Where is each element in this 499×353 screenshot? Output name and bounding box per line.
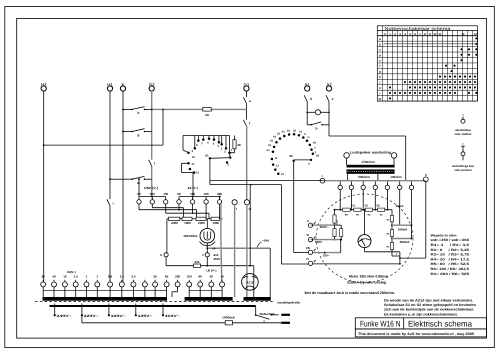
wire bus anode — [152, 108, 247, 110]
label meter spec line1 — [349, 275, 388, 279]
wire mid link 1 — [152, 207, 183, 219]
terminal I speaker — [320, 174, 325, 183]
terminal 230 — [172, 274, 180, 297]
svg-text:R2= 6 / R2= 5,25: R2= 6 / R2= 5,25 — [431, 248, 470, 252]
svg-text:10: 10 — [364, 204, 368, 208]
capacitor 8uF 450V — [202, 253, 220, 266]
wire bar tap left — [347, 174, 349, 181]
svg-text:S2: S2 — [293, 130, 297, 133]
wire H1 vertical upper — [109, 91, 111, 199]
speaker terminal left — [344, 153, 350, 165]
separator dashed — [35, 301, 274, 303]
fuse 2A — [203, 108, 211, 117]
label 250V~ — [320, 225, 329, 229]
svg-text:VI: VI — [306, 233, 309, 237]
wire S1 wiper down — [209, 158, 211, 180]
svg-text:150: 150 — [163, 192, 168, 196]
label 10V~ — [322, 253, 329, 257]
rotary switch S1 — [182, 136, 234, 175]
terminal G1 — [243, 82, 249, 91]
label aansluitbus — [454, 128, 472, 136]
svg-text:b: b — [315, 127, 317, 131]
wire 500V — [311, 239, 342, 241]
nokkenschakelaar schema table — [377, 26, 477, 101]
mains terminal pin 1 — [281, 314, 290, 316]
switch l (nok contact l) — [149, 160, 156, 166]
wire common bottom — [313, 263, 400, 265]
terminal I — [232, 200, 237, 212]
table contact dots — [384, 37, 478, 99]
wire G1 switch a to bus — [245, 103, 247, 109]
rotary switch S2 — [266, 130, 319, 176]
svg-text:1.5: 1.5 — [74, 274, 79, 278]
svg-text:S2: S2 — [289, 154, 293, 158]
svg-text:l: l — [154, 162, 155, 166]
switch i (nok contact i) — [107, 199, 114, 206]
svg-text:110V~: 110V~ — [165, 314, 180, 318]
wire G2 vertical lower — [151, 166, 153, 198]
meter movement — [358, 235, 371, 248]
speaker terminal right — [391, 153, 397, 165]
wire mid link 3 — [166, 207, 209, 219]
junction H1-m — [109, 178, 123, 180]
terminal G2 — [149, 82, 155, 91]
label 100ohm — [390, 175, 402, 179]
svg-text:240V~: 240V~ — [57, 314, 72, 318]
svg-text:12: 12 — [196, 172, 199, 175]
wire plus node — [392, 252, 401, 265]
label 250mA — [400, 240, 411, 244]
wire G2 vertical upper — [151, 91, 153, 160]
wire meter bottom — [365, 248, 400, 252]
label 0MV — [257, 239, 270, 248]
svg-text:11: 11 — [439, 32, 442, 36]
mains terminal pin 2 — [281, 322, 290, 324]
mains switch — [255, 306, 279, 323]
switch m (nok contact m) — [123, 176, 152, 184]
svg-text:d: d — [310, 97, 312, 101]
wire middle terminal bus — [139, 196, 221, 198]
svg-text:U52 (V-): U52 (V-) — [144, 186, 158, 190]
label 500V — [315, 240, 322, 244]
voltage taps — [54, 304, 180, 319]
svg-text:125V~: 125V~ — [138, 314, 153, 318]
switch b (nok contact b) — [307, 122, 329, 131]
label voedingstrafo — [277, 301, 300, 305]
wire terminal II drop — [400, 182, 426, 258]
svg-text:A1: A1 — [299, 131, 303, 134]
wire 300V down — [220, 204, 223, 282]
label 1700ohm — [361, 160, 375, 164]
svg-text:II: II — [307, 219, 309, 223]
svg-text:3.5: 3.5 — [120, 274, 125, 278]
wire AZ12 plate — [249, 185, 251, 267]
wire A2 to speaker box — [329, 136, 406, 181]
svg-text:Nokkenschakelaar schema: Nokkenschakelaar schema — [385, 26, 452, 31]
svg-text:500ohm: 500ohm — [358, 175, 370, 179]
svg-text:2900: 2900 — [171, 221, 178, 225]
svg-text:100: 100 — [187, 274, 192, 278]
resistor 1700ohm bar — [347, 165, 395, 167]
busbar middle — [185, 297, 233, 301]
svg-text:h: h — [379, 75, 381, 79]
wire H1 vertical lower — [109, 206, 111, 282]
svg-text:100: 100 — [190, 192, 195, 196]
wire 100mA — [392, 224, 412, 226]
wire anode 0MV — [207, 248, 270, 297]
terminal A1 — [305, 82, 311, 91]
aansluitbus symbol — [461, 113, 465, 123]
speaker bus — [323, 180, 426, 182]
meter terminal VI — [306, 233, 315, 242]
svg-text:De kontakten a..m zijn nokkens: De kontakten a..m zijn nokkenschakelaars… — [384, 312, 458, 316]
label meter spec line2 — [347, 280, 386, 284]
wire drop to H2 link — [162, 109, 164, 145]
wire 250mA — [392, 238, 412, 240]
svg-text:R1= 4 / R1= 3,5: R1= 4 / R1= 3,5 — [431, 243, 470, 247]
wire G1 to switch a — [245, 91, 247, 97]
wire 250mA stub — [411, 190, 413, 239]
svg-text:A2: A2 — [273, 136, 277, 139]
meter assembly boundary — [316, 194, 413, 283]
svg-text:voor pennen: voor pennen — [454, 168, 472, 172]
junction K-g — [122, 131, 124, 133]
svg-text:g: g — [137, 133, 139, 137]
svg-text:10V~: 10V~ — [322, 253, 329, 257]
label Netschak — [260, 312, 276, 316]
meter terminal IV — [306, 257, 315, 266]
terminal A2 — [326, 82, 332, 91]
svg-text:26: 26 — [153, 274, 157, 278]
svg-text:2500: 2500 — [336, 219, 339, 225]
wire S1 contact12 down — [192, 173, 195, 198]
wire terminal IX down — [246, 205, 248, 297]
fuse 1000mA — [222, 316, 281, 325]
wire tube anode — [206, 219, 208, 229]
svg-text:220V~: 220V~ — [84, 314, 99, 318]
svg-text:1900: 1900 — [184, 221, 191, 225]
svg-text:40: 40 — [52, 274, 56, 278]
svg-text:Schakelaar S1 en S2 zitten gek: Schakelaar S1 en S2 zitten gekoppeld en … — [384, 303, 476, 307]
voltage multiplier resistors — [333, 209, 343, 241]
lamp between A1 A2 — [306, 110, 329, 115]
svg-text:12: 12 — [474, 32, 478, 36]
switch d (nok contact d) — [304, 95, 312, 101]
svg-text:Luidspreker aansluiting: Luidspreker aansluiting — [350, 150, 391, 154]
speaker tap terminals — [338, 181, 414, 189]
svg-text:U6 (V~): U6 (V~) — [206, 269, 216, 273]
svg-text:A1: A1 — [268, 144, 272, 147]
svg-text:A3: A3 — [281, 131, 285, 134]
svg-text:IV: IV — [306, 257, 309, 261]
svg-text:b: b — [379, 42, 381, 46]
svg-text:V: V — [202, 253, 204, 257]
terminal H2 — [41, 82, 47, 91]
wire link to H2 — [44, 144, 163, 146]
mains bus thick — [50, 305, 256, 307]
resistors 2900 1900 2300 1950 — [167, 217, 223, 225]
svg-text:Waarde in ohm: Waarde in ohm — [431, 233, 457, 237]
shunt resistors R3 R2 R1 — [387, 210, 394, 256]
svg-text:De anode van de AZ12 zijn met: De anode van de AZ12 zijn met elkaar ver… — [384, 298, 473, 302]
svg-text:1700ohm: 1700ohm — [361, 160, 375, 164]
svg-text:500V: 500V — [315, 240, 322, 244]
switch h (nok contact h) — [123, 107, 152, 115]
label verbindingsbus — [452, 164, 475, 172]
switch g (nok contact g) — [123, 129, 152, 137]
wire link down right — [281, 185, 308, 264]
wire 100mA stub — [399, 190, 401, 226]
svg-text:2300: 2300 — [198, 221, 205, 225]
speaker tap stubs — [340, 190, 387, 210]
svg-text:160V~: 160V~ — [111, 314, 126, 318]
svg-text:R5= 60 / R5= 52,5: R5= 60 / R5= 52,5 — [431, 262, 470, 266]
wire heater to AZ12 — [253, 266, 255, 297]
svg-text:VB: VB — [306, 246, 310, 250]
svg-text:H: H — [160, 253, 162, 257]
svg-text:10: 10 — [192, 156, 195, 159]
svg-text:65: 65 — [165, 274, 169, 278]
svg-text:319mA bij volle uitslag: 319mA bij volle uitslag — [347, 280, 386, 284]
svg-text:AZ12: AZ12 — [246, 280, 253, 284]
svg-text:voedingstrafo: voedingstrafo — [277, 301, 300, 305]
svg-text:100ohm: 100ohm — [390, 175, 402, 179]
wire mid link 2 — [139, 207, 197, 219]
svg-text:5.5: 5.5 — [131, 274, 136, 278]
svg-text:230: 230 — [175, 274, 180, 278]
wire to speaker terminal I — [210, 179, 323, 181]
terminal H1 — [107, 82, 113, 91]
label U52 (V-) — [144, 186, 158, 190]
svg-text:wdr.=250 / wdr.=260: wdr.=250 / wdr.=260 — [429, 238, 469, 242]
wire tube cathode — [206, 243, 208, 253]
meter shunt chain R6-R3 — [335, 204, 405, 217]
svg-text:60: 60 — [137, 192, 141, 196]
svg-text:500: 500 — [150, 192, 155, 196]
svg-text:10: 10 — [220, 274, 224, 278]
svg-text:230: 230 — [195, 260, 200, 264]
wire 250V — [311, 224, 342, 226]
resistor 500ohm/100ohm bar — [347, 170, 395, 174]
svg-text:60: 60 — [177, 192, 181, 196]
wire S2 wiper down — [294, 161, 309, 253]
switch f (nok contact f) — [243, 120, 251, 126]
wire terminal I down — [234, 205, 236, 297]
svg-text:10: 10 — [433, 32, 437, 36]
svg-text:1950: 1950 — [212, 221, 219, 225]
svg-text:G: G — [307, 136, 309, 139]
svg-text:20: 20 — [42, 274, 46, 278]
junction H2 link — [43, 144, 45, 146]
tube GR15kVA — [184, 228, 216, 245]
svg-text:15: 15 — [63, 274, 67, 278]
wire mid link 4 — [179, 207, 220, 219]
svg-text:250V~: 250V~ — [320, 225, 329, 229]
svg-text:60: 60 — [199, 274, 203, 278]
label 4A (V~) — [188, 186, 199, 190]
verbindingsbus symbol — [461, 143, 465, 161]
svg-text:zich aan de buitenzijde van de: zich aan de buitenzijde van de nokkensch… — [384, 308, 474, 312]
svg-text:300: 300 — [217, 192, 222, 196]
svg-text:g: g — [379, 70, 381, 74]
svg-text:S3: S3 — [277, 133, 281, 136]
wire bar tap mid — [377, 174, 379, 181]
label 100mA — [398, 227, 409, 231]
svg-text:R6= 200 / R6= 262,5: R6= 200 / R6= 262,5 — [431, 267, 470, 271]
busbar left — [43, 297, 168, 301]
label U6 (V~) — [206, 269, 216, 273]
svg-text:12: 12 — [461, 32, 465, 36]
anode note text — [384, 298, 476, 316]
terminal H — [160, 253, 168, 266]
waarde in ohm table — [429, 233, 469, 275]
svg-text:Meter 260 ohm 0.86mA: Meter 260 ohm 0.86mA — [349, 275, 388, 279]
terminal K — [120, 82, 125, 91]
svg-text:H1: H1 — [313, 142, 317, 145]
junction K-h — [122, 109, 124, 111]
svg-text:S1: S1 — [205, 154, 209, 158]
resistor 4K — [230, 136, 242, 153]
svg-text:~0MV: ~0MV — [262, 239, 270, 243]
label U4(V~) — [67, 270, 76, 274]
wire m to terminal bus — [138, 179, 140, 196]
title block — [355, 318, 486, 337]
wire G1 bus to switch f — [245, 109, 247, 119]
svg-text:30: 30 — [210, 274, 214, 278]
wire H2 vertical — [43, 91, 45, 282]
wire K vertical — [122, 91, 124, 282]
svg-text:U4(V~): U4(V~) — [67, 270, 76, 274]
svg-text:m: m — [379, 97, 382, 101]
junction m-drop — [138, 178, 140, 180]
svg-text:m: m — [137, 181, 140, 185]
wire tap to fuse — [82, 315, 225, 323]
label 500ohm — [358, 175, 370, 179]
bottom terminal strip right — [187, 274, 225, 297]
svg-text:This document is made by AvS f: This document is made by AvS for www.tub… — [358, 332, 474, 336]
svg-text:11: 11 — [191, 163, 194, 166]
svg-text:4A (V~): 4A (V~) — [188, 186, 199, 190]
middle terminal values — [137, 192, 222, 196]
wire A2 drop — [328, 102, 330, 137]
svg-text:0.5: 0.5 — [108, 274, 113, 278]
bottom bus thin right — [189, 289, 222, 291]
svg-text:R3= 10 / R3= 8,75: R3= 10 / R3= 8,75 — [431, 253, 470, 257]
svg-text:i: i — [113, 201, 114, 205]
wire 10V — [313, 239, 342, 254]
junction bus-G2 — [151, 109, 164, 111]
svg-text:100mA: 100mA — [398, 227, 409, 231]
svg-text:450V: 450V — [214, 257, 221, 261]
wire G1 below f to terminal IX — [246, 126, 248, 200]
meter terminal II — [307, 219, 316, 228]
terminal IX — [244, 200, 251, 212]
wire A1 drop — [306, 102, 308, 125]
wire meter top — [364, 209, 366, 235]
svg-text:A1: A1 — [266, 149, 270, 152]
svg-text:Netschak.: Netschak. — [260, 312, 276, 316]
svg-text:25: 25 — [376, 204, 380, 208]
svg-text:R4= 20 / R4= 17,5: R4= 20 / R4= 17,5 — [431, 257, 470, 261]
resistor 230 — [194, 260, 201, 267]
svg-text:R1= 600 / R6= 525: R1= 600 / R6= 525 — [431, 272, 470, 276]
tube AZ12 — [242, 274, 259, 291]
switch a (nok contact a) — [243, 97, 251, 103]
svg-text:S2: S2 — [270, 140, 274, 143]
svg-text:GR150/A: GR150/A — [184, 234, 199, 238]
wire resistor row left down — [166, 219, 168, 253]
svg-text:H2: H2 — [316, 155, 320, 158]
svg-text:+: + — [396, 252, 398, 256]
svg-text:h: h — [137, 111, 139, 115]
label Luidspreker aansluiting — [350, 150, 391, 154]
svg-text:f: f — [379, 64, 380, 68]
middle terminal strip — [137, 197, 222, 207]
wire lower link — [210, 180, 281, 185]
svg-text:250mA: 250mA — [400, 240, 411, 244]
bottom terminal strip left — [41, 274, 169, 297]
svg-text:Funke W16 N: Funke W16 N — [360, 320, 401, 329]
svg-text:a: a — [249, 99, 251, 103]
svg-text:voor stekker: voor stekker — [454, 132, 472, 136]
switch e (nok contact e) — [326, 95, 334, 101]
svg-text:II: II — [425, 173, 427, 177]
terminal II speaker — [423, 173, 428, 182]
svg-text:150: 150 — [204, 192, 209, 196]
label maatkaart note — [305, 291, 396, 295]
svg-text:e: e — [332, 97, 334, 101]
bottom bus thin left — [44, 289, 167, 291]
svg-text:S1: S1 — [287, 130, 291, 133]
svg-text:1000mA: 1000mA — [222, 316, 236, 320]
svg-text:Elektrisch schema: Elektrisch schema — [408, 320, 472, 329]
svg-text:d: d — [379, 53, 381, 57]
svg-text:Met de maatkaart 1mA is totale: Met de maatkaart 1mA is totale weerstand… — [305, 291, 396, 295]
busbar right — [244, 297, 271, 301]
meter terminal VB — [306, 246, 316, 255]
label CP — [212, 248, 216, 251]
wire heater line — [166, 265, 254, 267]
